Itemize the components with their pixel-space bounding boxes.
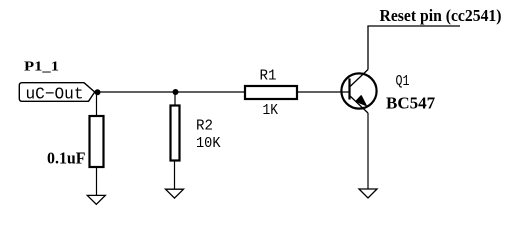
svg-text:Q1: Q1 [396,73,410,90]
svg-text:R2: R2 [196,117,213,134]
svg-text:10K: 10K [196,135,221,152]
svg-text:P1_1: P1_1 [24,60,59,75]
svg-text:1K: 1K [263,102,279,119]
svg-text:Reset pin (cc2541): Reset pin (cc2541) [380,6,502,25]
svg-text:0.1uF: 0.1uF [47,148,86,167]
svg-text:BC547: BC547 [386,94,436,113]
svg-text:uC−Out: uC−Out [26,86,84,105]
svg-text:R1: R1 [260,68,277,85]
